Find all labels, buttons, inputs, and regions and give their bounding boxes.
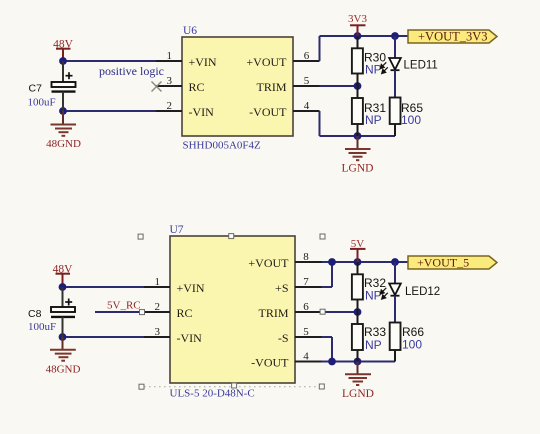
svg-text:U7: U7	[170, 224, 184, 236]
svg-text:LGND: LGND	[342, 388, 374, 400]
svg-text:48GND: 48GND	[46, 364, 81, 376]
svg-text:NP: NP	[365, 113, 382, 127]
svg-text:RC: RC	[189, 80, 205, 94]
svg-text:6: 6	[304, 50, 310, 62]
svg-text:100: 100	[402, 338, 422, 352]
svg-text:+VOUT_5: +VOUT_5	[417, 256, 469, 270]
svg-text:+VOUT_3V3: +VOUT_3V3	[418, 30, 488, 44]
svg-text:48GND: 48GND	[46, 138, 81, 150]
svg-text:NP: NP	[365, 63, 382, 77]
svg-text:3V3: 3V3	[348, 13, 367, 25]
svg-text:-S: -S	[278, 331, 289, 345]
svg-text:TRIM: TRIM	[257, 80, 287, 94]
svg-text:4: 4	[304, 100, 310, 112]
svg-text:RC: RC	[177, 306, 193, 320]
svg-text:100uF: 100uF	[28, 321, 56, 333]
svg-text:5V_RC: 5V_RC	[107, 300, 141, 312]
svg-text:-VIN: -VIN	[189, 105, 215, 119]
svg-text:U6: U6	[183, 25, 197, 37]
svg-text:+VIN: +VIN	[177, 281, 205, 295]
svg-text:5: 5	[304, 75, 310, 87]
svg-text:1: 1	[167, 50, 173, 62]
svg-text:-VIN: -VIN	[177, 331, 203, 345]
svg-text:C8: C8	[28, 308, 42, 320]
svg-text:LGND: LGND	[342, 163, 374, 175]
svg-text:C7: C7	[29, 83, 43, 95]
svg-text:5V: 5V	[351, 238, 365, 250]
svg-text:NP: NP	[365, 338, 382, 352]
svg-text:5: 5	[303, 326, 309, 338]
svg-text:+VOUT: +VOUT	[248, 256, 289, 270]
svg-text:TRIM: TRIM	[259, 306, 289, 320]
svg-text:positive logic: positive logic	[99, 64, 164, 78]
svg-text:8: 8	[303, 251, 309, 263]
svg-text:SHHD005A0F4Z: SHHD005A0F4Z	[183, 140, 262, 152]
svg-text:2: 2	[167, 100, 173, 112]
svg-text:-VOUT: -VOUT	[249, 105, 287, 119]
svg-text:+S: +S	[275, 281, 288, 295]
svg-text:1: 1	[155, 276, 161, 288]
svg-text:LED11: LED11	[404, 60, 438, 72]
svg-text:3: 3	[167, 75, 173, 87]
svg-text:2: 2	[155, 301, 161, 313]
svg-text:LED12: LED12	[405, 286, 440, 298]
svg-text:4: 4	[303, 351, 309, 363]
svg-text:7: 7	[303, 276, 309, 288]
svg-text:R33: R33	[364, 325, 386, 339]
svg-text:-VOUT: -VOUT	[251, 356, 289, 370]
svg-text:6: 6	[303, 301, 309, 313]
svg-text:+VOUT: +VOUT	[246, 55, 287, 69]
svg-text:+VIN: +VIN	[189, 55, 217, 69]
svg-text:100: 100	[401, 113, 421, 127]
svg-text:NP: NP	[365, 289, 382, 303]
svg-text:100uF: 100uF	[28, 97, 56, 109]
svg-text:3: 3	[155, 326, 161, 338]
svg-text:ULS-5 20-D48N-C: ULS-5 20-D48N-C	[170, 388, 255, 400]
